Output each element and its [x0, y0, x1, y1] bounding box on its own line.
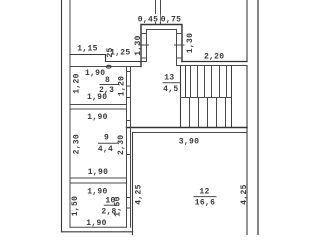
- wall right outer: [257, 0, 259, 235]
- svg-text:1,90: 1,90: [87, 187, 107, 196]
- room 8 underline: [100, 84, 120, 86]
- shaft line left at top: [155, 0, 157, 25]
- dim 0,45: [137, 14, 159, 22]
- room 10 underline: [104, 204, 119, 206]
- svg-text:1,25: 1,25: [110, 49, 130, 58]
- wall left outer line: [61, 0, 63, 232]
- wall right inner lower: [246, 66, 248, 236]
- wall mid horizontal top line: [127, 127, 248, 129]
- stairwell left wall line b: [185, 66, 187, 98]
- wall bottom inner line: [70, 226, 127, 228]
- svg-text:1,50: 1,50: [71, 196, 80, 216]
- stairwell left wall line a: [180, 66, 182, 128]
- shaft line right at top: [160, 0, 162, 25]
- room 12 underline: [194, 196, 217, 198]
- wall 2,20 bottom line: [177, 65, 248, 67]
- wall room8-9 divider bottom line: [70, 108, 127, 110]
- svg-text:2,30: 2,30: [117, 135, 126, 155]
- stair flight edge: [231, 66, 233, 128]
- svg-text:1,20: 1,20: [72, 73, 81, 93]
- svg-text:4,25: 4,25: [240, 184, 249, 204]
- svg-text:1,30: 1,30: [134, 35, 143, 55]
- svg-text:13: 13: [164, 74, 174, 83]
- wall mid horizontal bottom line: [133, 132, 248, 134]
- wall top-left inner line: [70, 66, 141, 68]
- niche right cross tick: [175, 44, 185, 46]
- niche left cross tick: [139, 44, 149, 46]
- svg-text:3,90: 3,90: [179, 137, 199, 146]
- svg-text:1,90: 1,90: [86, 219, 106, 228]
- niche left lower connector tick: [141, 57, 147, 59]
- niche left connector tick: [141, 33, 147, 35]
- room 9 underline: [98, 142, 118, 144]
- svg-text:1,30: 1,30: [186, 33, 195, 53]
- wall top-left outer stepped line: [70, 55, 147, 62]
- partition rooms right line: [130, 67, 132, 228]
- niche right connector tick: [177, 33, 183, 35]
- svg-text:1,20: 1,20: [118, 76, 127, 96]
- wall 2,20 top line: [182, 61, 247, 63]
- svg-text:8: 8: [105, 76, 110, 85]
- wall left inner line: [69, 0, 71, 227]
- svg-text:1,90: 1,90: [87, 113, 107, 122]
- svg-text:12: 12: [199, 187, 209, 196]
- svg-text:9: 9: [104, 133, 109, 142]
- svg-text:0,45: 0,45: [138, 16, 158, 25]
- wall bottom outer line: [62, 231, 133, 233]
- svg-text:0,75: 0,75: [161, 16, 181, 25]
- wall room9-10 divider bottom line: [70, 182, 127, 184]
- svg-text:1,50: 1,50: [114, 196, 123, 216]
- svg-text:4,25: 4,25: [134, 184, 143, 204]
- partition rooms left line: [126, 67, 128, 228]
- svg-text:1,90: 1,90: [85, 69, 105, 78]
- wall room8-9 divider top line: [70, 104, 127, 106]
- svg-text:2,30: 2,30: [73, 134, 82, 154]
- wall right inner upper: [246, 0, 248, 62]
- room12 left wall: [132, 133, 134, 236]
- svg-text:4,4: 4,4: [98, 145, 113, 154]
- stair landing line: [181, 97, 232, 99]
- wall room9-10 divider top line: [70, 177, 127, 179]
- svg-text:1,90: 1,90: [88, 168, 108, 177]
- svg-text:16,6: 16,6: [195, 199, 215, 208]
- svg-text:4,5: 4,5: [163, 85, 178, 94]
- partition cross ticks: [127, 72, 131, 209]
- stair lower steps: [190, 98, 226, 128]
- svg-text:1,15: 1,15: [77, 44, 97, 53]
- svg-text:0: 0: [106, 64, 115, 69]
- niche inner outline: [147, 30, 177, 66]
- room 13 underline: [163, 82, 181, 84]
- stair upper steps: [191, 66, 227, 98]
- svg-text:2,20: 2,20: [204, 52, 224, 61]
- niche right lower connector tick: [177, 57, 183, 59]
- svg-text:1,90: 1,90: [87, 93, 107, 102]
- niche outer outline: [141, 25, 182, 67]
